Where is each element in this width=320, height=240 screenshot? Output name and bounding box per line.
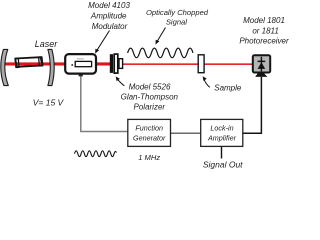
arrow to chopped wave (156, 28, 166, 45)
polarizer (Glan-Thompson) (110, 54, 123, 73)
label Model 5526 Glan-Thompson Polarizer (121, 82, 179, 111)
svg-text:Photoreceiver: Photoreceiver (239, 36, 289, 45)
svg-text:Signal: Signal (166, 17, 187, 26)
label Laser (35, 39, 59, 49)
photoreceiver U2 (253, 55, 270, 72)
label 1 MHz (138, 153, 160, 162)
svg-text:Sample: Sample (214, 84, 242, 93)
1 MHz sine squiggle (75, 151, 117, 157)
svg-text:Generator: Generator (133, 133, 166, 142)
wire modulator to function generator (81, 74, 128, 132)
svg-text:Optically Chopped: Optically Chopped (146, 8, 209, 17)
arrow to polarizer (116, 77, 125, 86)
laser cavity mirror right (48, 49, 54, 85)
svg-text:Amplifier: Amplifier (207, 133, 237, 142)
photoreceiver base (255, 73, 267, 77)
laser cavity mirror left (1, 49, 9, 85)
amplitude modulator U1 (65, 54, 96, 76)
wire function generator to lock-in amplifier (171, 132, 201, 134)
laser rod (15, 57, 43, 68)
label Optically Chopped Signal (146, 8, 209, 26)
svg-text:Modulator: Modulator (92, 22, 128, 31)
label Model 1801 or 1811 Photoreceiver (239, 16, 289, 45)
svg-text:Model 4103: Model 4103 (88, 1, 130, 10)
svg-text:Lock-in: Lock-in (210, 124, 233, 133)
lock-in amplifier box (201, 119, 243, 146)
optically chopped signal sine wave (128, 48, 193, 58)
label Signal Out (203, 160, 243, 170)
svg-text:V= 15 V: V= 15 V (33, 97, 65, 107)
svg-text:Signal Out: Signal Out (203, 160, 243, 170)
wire signal out (221, 146, 223, 158)
label Sample (214, 84, 242, 93)
arrow to modulator (95, 31, 109, 54)
svg-text:or 1811: or 1811 (252, 27, 279, 36)
svg-text:Model 1801: Model 1801 (243, 16, 285, 25)
wire photoreceiver to lock-in amplifier (243, 77, 262, 133)
svg-text:Polarizer: Polarizer (134, 103, 166, 112)
svg-text:Function: Function (135, 124, 163, 133)
arrow to sample (203, 76, 210, 87)
svg-text:1 MHz: 1 MHz (138, 153, 160, 162)
laser beam thin segment (123, 63, 253, 65)
sample (198, 55, 204, 73)
label V= 15 V (33, 97, 65, 107)
svg-text:Amplitude: Amplitude (90, 11, 127, 20)
function generator box (128, 119, 171, 146)
svg-text:Model 5526: Model 5526 (129, 82, 171, 91)
label Model 4103 Amplitude Modulator (88, 1, 130, 31)
laser beam thick segment (4, 62, 111, 65)
svg-text:Laser: Laser (35, 39, 59, 49)
svg-text:Glan-Thompson: Glan-Thompson (121, 93, 179, 102)
